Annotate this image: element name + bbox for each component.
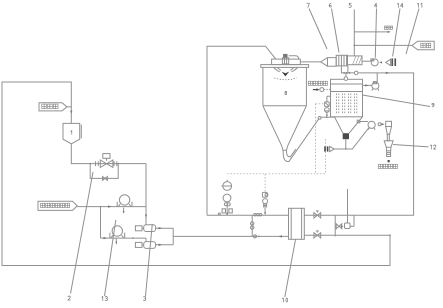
arrow: into fan (365, 84, 368, 86)
heater 5 (steam, hatched) (348, 56, 363, 65)
wire: conveying line to fan (334, 128, 369, 149)
wire: slurry suction line (77, 206, 146, 208)
wire: filter outlets to manifold (156, 228, 174, 245)
instrument stack (gauge group) on gas line (218, 180, 232, 216)
arrow: flow right (104, 237, 108, 239)
arrow: down into tank (70, 111, 72, 114)
wire: exhaust loop (right pipe, up riser, top run to heater) (304, 73, 413, 215)
compressed air label 压缩空气 (308, 81, 327, 85)
burner cone 7 (321, 58, 337, 67)
wire: slurry return loop (lower right pipe, bottom return, left riser to tank) (2, 82, 390, 266)
flag: pure water inlet 纯净水 (39, 103, 67, 111)
pulse valve and gauge left of baghouse (325, 96, 331, 117)
label 去装运区 (378, 164, 397, 168)
flag: steam 蒸汽 (412, 41, 434, 50)
arrow: flow right (108, 205, 112, 207)
arrow: into exchanger (left pointing) (278, 235, 282, 237)
flag: slurry feed 磷酸铁锂浆料 (38, 201, 77, 210)
wire: feed line to heat exchanger 10 (173, 235, 288, 237)
pump 13 (lower) (110, 226, 125, 245)
valve: bypass small valve (103, 177, 108, 181)
node: junction dot (132, 237, 134, 239)
wire: balance drop with valves (251, 215, 253, 236)
wire: bypass loop (90, 164, 118, 179)
wire: steam line to flag (354, 44, 412, 46)
arrow: intake into fan (379, 61, 382, 63)
wire: feed arch over atomizer (289, 56, 299, 59)
fan 15 (exhaust fan) (372, 73, 379, 91)
heater 6 (finned) (336, 55, 348, 73)
filter 3 (upper capsule) (135, 225, 155, 232)
leader lines bottom labels (71, 172, 94, 294)
filter 3 (lower capsule) (135, 242, 155, 249)
node: dots on exhaust header (343, 72, 345, 74)
leader lines top labels (309, 9, 327, 50)
wire: baghouse outlet to fan (363, 84, 372, 86)
compressed air arrow and fitting (313, 88, 331, 92)
heat exchanger 10 (289, 208, 305, 239)
wire: water drop line to filter F1 (145, 164, 147, 225)
atomizer motor (282, 54, 288, 64)
intake silencer 14 (386, 58, 396, 66)
arrow: exhaust flow right (386, 72, 390, 74)
valve 2: control valve with actuator (96, 154, 117, 168)
node: corner junction dot (389, 234, 391, 236)
vent circle on baghouse top (344, 77, 348, 81)
intake silencer (conveying air) (324, 146, 334, 151)
wire: gas riser and top feed run to dryer roof (207, 46, 276, 215)
wire: dangling condensate drop (347, 189, 349, 223)
wire: condensate branch with steam trap (334, 215, 336, 236)
wire: vent line 排空 (354, 26, 392, 33)
wire: signal dashed lines (227, 104, 326, 193)
wire: hot gas pipe into exchanger (left run to riser) (207, 214, 289, 216)
bag filter 9 (331, 79, 363, 133)
spray dryer 8 (261, 65, 309, 151)
valve: upper right pipe (314, 211, 321, 218)
outlet nozzle on baghouse cone (357, 120, 368, 123)
tank 1 (63, 123, 81, 143)
wire: drop into filter F2 (145, 238, 147, 242)
leader: label 9 (363, 95, 431, 107)
wire: flag to tank inlet (67, 106, 71, 108)
cyclone hopper 12 (384, 121, 393, 162)
instrument stack 2 on gas line (262, 192, 268, 215)
fan (transport) (368, 121, 375, 129)
leader: label 12 (393, 145, 428, 147)
wire: baghouse top vent to exhaust header (345, 73, 347, 77)
dryer roof air disperser box (272, 59, 301, 65)
arrow: filter outlet flows (159, 227, 163, 229)
fitting: union circles on feed line (254, 235, 257, 238)
wire: hot gas inlet line to roof box (300, 61, 320, 63)
wire: steam supply vertical (and leader 5) (353, 9, 355, 56)
arrow: into steam trap (341, 225, 344, 227)
wire: fines line from dryer U-bend to baghouse cone (283, 116, 334, 161)
wire: tank outlet (71, 144, 146, 164)
node: bypass junctions (89, 163, 91, 165)
air disperser vanes (274, 67, 298, 71)
pump (upper) (117, 195, 132, 214)
fitting and arrow to cyclone (378, 123, 385, 126)
spray droplets arc (274, 78, 296, 80)
fan 4 (supply) (362, 59, 378, 66)
fitting: three unions on gas pipe (254, 214, 256, 216)
wire: lower slurry line (101, 237, 147, 239)
steam trap (345, 223, 351, 229)
arrow: down on drop line (145, 215, 147, 219)
spray cone (dark) (282, 72, 290, 77)
rotary valve (dark) (343, 133, 349, 149)
fitting: union on exhaust header (354, 71, 358, 75)
valve: lower right pipe (314, 231, 321, 238)
wire: branch down to lower pump line (100, 207, 102, 239)
